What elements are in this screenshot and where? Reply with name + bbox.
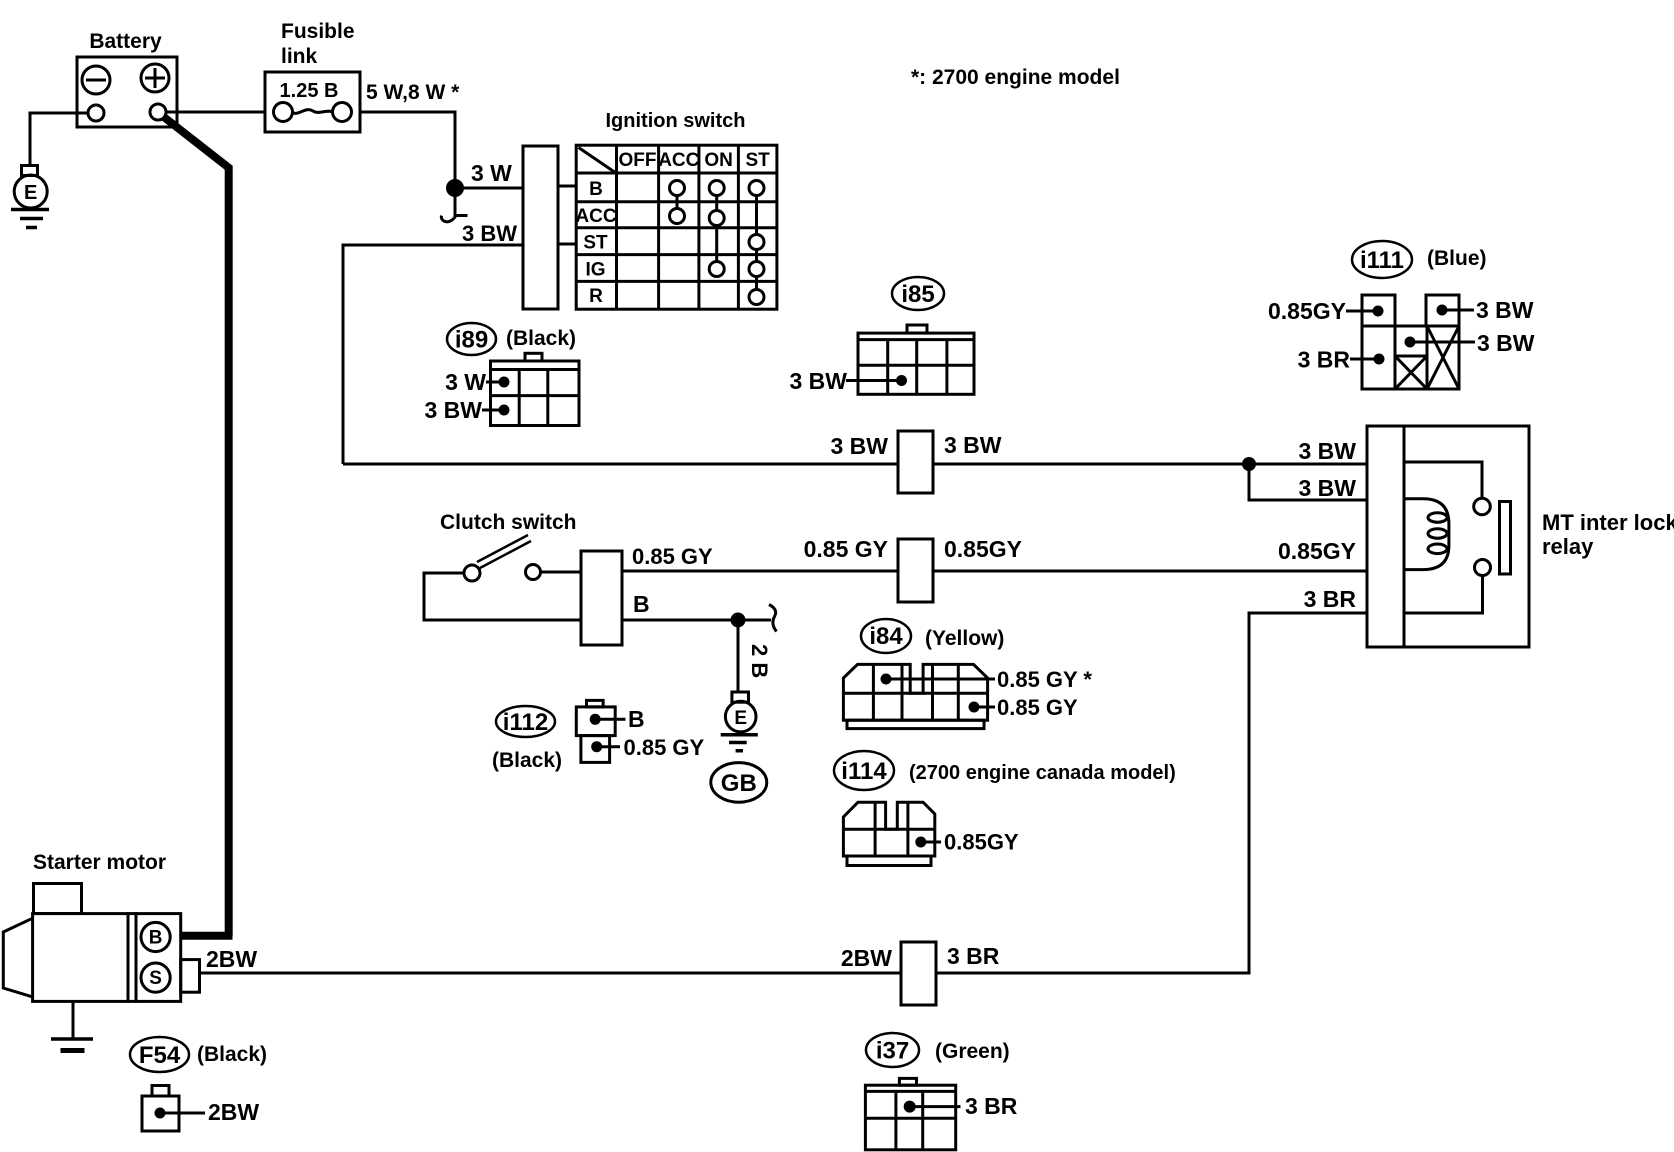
svg-text:B: B <box>149 928 163 949</box>
svg-text:(Black): (Black) <box>506 327 576 350</box>
svg-text:3 W: 3 W <box>445 369 486 395</box>
svg-text:0.85GY: 0.85GY <box>1278 538 1356 564</box>
svg-text:(Yellow): (Yellow) <box>925 627 1004 650</box>
svg-text:OFF: OFF <box>619 150 657 171</box>
svg-text:0.85GY: 0.85GY <box>1268 298 1346 324</box>
svg-text:i112: i112 <box>503 709 548 736</box>
svg-text:3 BW: 3 BW <box>790 368 848 394</box>
svg-text:0.85 GY: 0.85 GY <box>624 735 705 760</box>
svg-text:2 B: 2 B <box>747 644 772 678</box>
svg-text:*: 2700 engine model: *: 2700 engine model <box>911 66 1120 89</box>
svg-text:i84: i84 <box>869 623 903 650</box>
svg-text:IG: IG <box>585 260 605 281</box>
svg-text:2BW: 2BW <box>206 946 257 972</box>
svg-text:3 BR: 3 BR <box>1304 586 1357 612</box>
svg-text:3 BW: 3 BW <box>1299 438 1357 464</box>
svg-text:0.85 GY: 0.85 GY <box>632 544 713 569</box>
svg-text:i37: i37 <box>876 1038 909 1065</box>
svg-text:ACC: ACC <box>658 150 699 171</box>
svg-text:3 BR: 3 BR <box>1298 347 1351 373</box>
svg-text:Battery: Battery <box>89 30 162 53</box>
svg-text:3 BW: 3 BW <box>944 432 1002 458</box>
svg-text:3 BW: 3 BW <box>1476 297 1534 323</box>
svg-text:link: link <box>281 45 317 68</box>
svg-text:(Black): (Black) <box>492 749 562 772</box>
svg-text:3 BW: 3 BW <box>425 397 483 423</box>
svg-text:i89: i89 <box>455 327 488 354</box>
svg-text:i85: i85 <box>901 281 934 308</box>
svg-text:(2700 engine canada model): (2700 engine canada model) <box>909 762 1176 784</box>
svg-text:(Black): (Black) <box>197 1043 267 1066</box>
svg-text:relay: relay <box>1542 534 1594 559</box>
svg-text:S: S <box>149 968 162 989</box>
svg-text:0.85 GY: 0.85 GY <box>804 536 888 562</box>
svg-text:E: E <box>734 708 747 729</box>
svg-text:Fusible: Fusible <box>281 20 355 43</box>
svg-text:3 BW: 3 BW <box>1299 475 1357 501</box>
svg-text:3 BR: 3 BR <box>947 943 1000 969</box>
svg-text:Ignition switch: Ignition switch <box>606 110 746 132</box>
svg-text:3 BW: 3 BW <box>462 221 517 246</box>
svg-text:i114: i114 <box>841 758 887 785</box>
svg-text:3 BR: 3 BR <box>965 1093 1018 1119</box>
svg-text:B: B <box>589 179 603 200</box>
svg-text:ACC: ACC <box>575 206 616 227</box>
svg-text:F54: F54 <box>139 1042 181 1069</box>
svg-text:0.85 GY *: 0.85 GY * <box>997 667 1092 692</box>
svg-text:E: E <box>24 182 37 204</box>
svg-text:B: B <box>633 591 650 617</box>
svg-text:B: B <box>628 706 645 732</box>
svg-text:0.85GY: 0.85GY <box>944 536 1022 562</box>
svg-text:R: R <box>589 286 603 307</box>
svg-text:3 BW: 3 BW <box>831 433 889 459</box>
svg-text:ST: ST <box>745 150 770 171</box>
svg-text:i111: i111 <box>1360 247 1404 274</box>
svg-text:Starter motor: Starter motor <box>33 851 166 874</box>
svg-text:(Green): (Green) <box>935 1040 1010 1063</box>
svg-text:Clutch switch: Clutch switch <box>440 511 577 534</box>
svg-text:3 BW: 3 BW <box>1477 330 1535 356</box>
svg-text:(Blue): (Blue) <box>1427 247 1487 270</box>
svg-text:0.85 GY: 0.85 GY <box>997 695 1078 720</box>
svg-text:5 W,8 W *: 5 W,8 W * <box>366 81 460 104</box>
svg-text:2BW: 2BW <box>841 945 892 971</box>
svg-text:MT inter lock: MT inter lock <box>1542 510 1674 535</box>
svg-text:GB: GB <box>721 770 757 797</box>
svg-text:ST: ST <box>583 233 608 254</box>
svg-text:0.85GY: 0.85GY <box>944 830 1019 855</box>
svg-text:3 W: 3 W <box>471 160 512 186</box>
svg-text:1.25 B: 1.25 B <box>280 80 339 102</box>
svg-text:ON: ON <box>704 150 733 171</box>
svg-text:2BW: 2BW <box>208 1099 259 1125</box>
